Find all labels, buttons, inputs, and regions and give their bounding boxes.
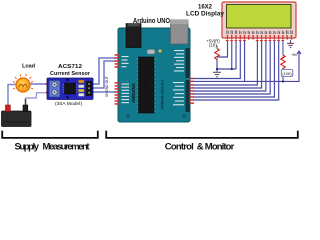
svg-text:12V/7AH BATTERY: 12V/7AH BATTERY [4, 120, 29, 124]
svg-text:Monitor: Monitor [205, 142, 235, 153]
svg-text:Supply: Supply [15, 142, 40, 153]
svg-text:&: & [197, 142, 204, 153]
svg-text:ACS712: ACS712 [58, 64, 82, 70]
svg-text:ATMEGA 16U2 MU: ATMEGA 16U2 MU [161, 80, 165, 110]
svg-text:ARDUINO: ARDUINO [131, 82, 136, 102]
svg-text:Current Sensor: Current Sensor [50, 71, 91, 77]
svg-text:+5v: +5v [291, 53, 297, 57]
svg-text:ATMEGA328P: ATMEGA328P [144, 77, 148, 94]
svg-text:16X2: 16X2 [198, 4, 213, 11]
svg-text:Load: Load [22, 63, 36, 69]
svg-text:(10K): (10K) [282, 72, 292, 76]
svg-text:LCD Display: LCD Display [186, 11, 225, 18]
svg-text:Measurement: Measurement [43, 142, 91, 153]
svg-text:Arduino UNO: Arduino UNO [133, 18, 170, 25]
svg-text:(1K): (1K) [209, 43, 218, 48]
svg-text:(30A Model): (30A Model) [55, 101, 82, 106]
svg-text:5V GND OUT: 5V GND OUT [105, 76, 109, 97]
svg-text:Control: Control [165, 142, 194, 153]
